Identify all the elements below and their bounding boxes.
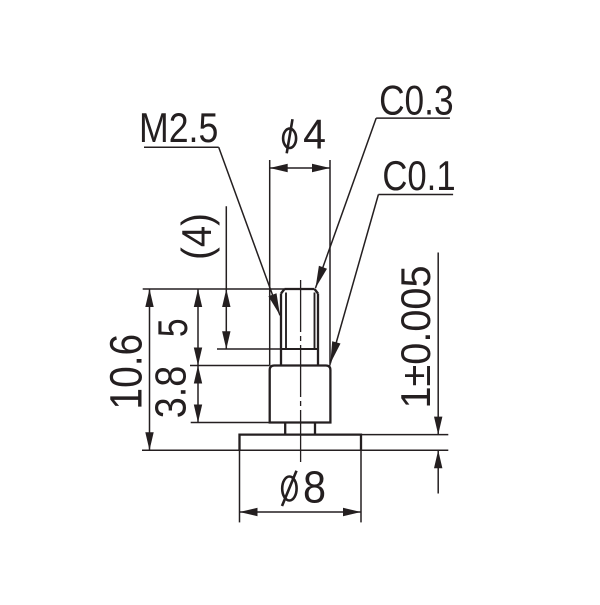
- dimension phi8: diameter symbol: [282, 471, 297, 506]
- dimension 3.8: line and arrows: [194, 366, 202, 423]
- part outline: phi4 cylindrical body: [270, 366, 331, 423]
- label C0.3: leader line and arrow: [316, 118, 450, 288]
- dimension 1±0.005: line and arrows: [434, 253, 442, 494]
- part outline: phi8 base disc: [240, 435, 362, 451]
- dimension 5: line and arrows: [194, 289, 202, 366]
- dimension phi4: diameter symbol: [283, 119, 296, 153]
- svg-text:4: 4: [303, 110, 326, 157]
- label M2.5: leader line and arrow: [144, 147, 280, 315]
- svg-text:M2.5: M2.5: [139, 105, 218, 151]
- svg-text:1±0.005: 1±0.005: [392, 266, 439, 409]
- dimension 10.6: line and arrows: [145, 289, 153, 450]
- svg-text:C0.3: C0.3: [379, 78, 453, 125]
- svg-text:C0.1: C0.1: [382, 153, 455, 200]
- label C0.1: leader line and arrow: [330, 195, 453, 364]
- extension line: disc top (right, for 1±0.005): [361, 434, 448, 436]
- extension line: disc bottom (long, both sides): [142, 449, 448, 451]
- dimension phi4: line and arrows: [270, 164, 330, 172]
- svg-text:3.8: 3.8: [146, 366, 195, 419]
- extension line: body bottom (left): [191, 422, 270, 424]
- extension line: phi8 right: [360, 450, 362, 522]
- extension line: body top (left): [190, 365, 270, 367]
- extension line: stud top (left): [143, 288, 285, 290]
- svg-text:8: 8: [303, 463, 326, 513]
- svg-text:(4): (4): [173, 213, 220, 260]
- extension line: phi8 left: [239, 450, 241, 522]
- dimension (4): line and arrows: [222, 206, 230, 349]
- centerline (vertical axis): [300, 280, 302, 463]
- extension line: phi4 left: [269, 160, 271, 366]
- svg-text:10.6: 10.6: [101, 334, 151, 410]
- extension line: phi4 right: [329, 160, 331, 366]
- extension line: thread end (left, for (4)): [217, 348, 282, 350]
- part outline: neck between body and base disc: [285, 423, 315, 435]
- dimension phi8: line and arrows: [240, 508, 362, 516]
- svg-text:5: 5: [151, 318, 197, 337]
- part outline: M2.5 threaded stud: [281, 289, 318, 366]
